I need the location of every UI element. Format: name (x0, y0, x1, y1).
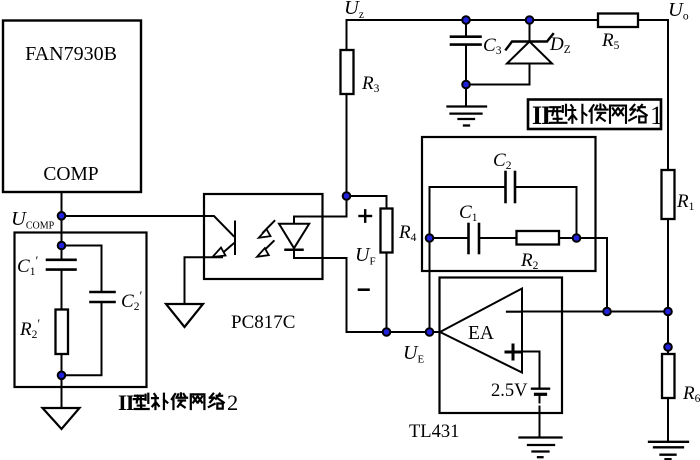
transistor Q1 emitter arrowhead (213, 248, 226, 258)
zener DZ triangle (507, 42, 552, 64)
wire node A up and right (C2 branch) (430, 187, 506, 238)
svg-text:C2′: C2′ (121, 288, 142, 313)
node comp2 top junction (58, 242, 66, 250)
node U_E wire (347, 331, 444, 333)
svg-text:1: 1 (650, 101, 663, 130)
svg-text:R2: R2 (520, 250, 539, 272)
capacitor C2' (91, 292, 115, 302)
svg-text:II: II (118, 390, 134, 415)
svg-text:Uz: Uz (344, 0, 364, 21)
zener DZ bar with tails (506, 34, 553, 50)
transistor Q1 collector (204, 216, 234, 236)
transistor Q1 base bar (234, 222, 236, 255)
ground (triangle) comp2 (43, 408, 80, 429)
svg-text:DZ: DZ (549, 34, 571, 56)
label network2 text (118, 390, 238, 415)
node rail C3 junction (462, 16, 470, 24)
resistor R4 (381, 209, 393, 253)
ground (bars) battery (520, 438, 562, 458)
resistor R2' (56, 310, 69, 355)
resistor R6 (662, 354, 675, 398)
op-amp EA triangle (440, 289, 522, 373)
LED D1 anode lead (293, 217, 295, 259)
wire R2' down to ground (61, 354, 63, 408)
svg-text:C1: C1 (459, 202, 478, 224)
wire R1 down (667, 219, 669, 354)
ground (bars) C3 (448, 107, 487, 126)
wire node B to minus input line (577, 238, 608, 312)
wire C1' to R2' (61, 270, 63, 310)
node LED+ junction (343, 192, 351, 200)
label plus (U_F) (360, 210, 372, 221)
svg-text:C2: C2 (493, 150, 512, 172)
svg-text:UE: UE (403, 342, 424, 366)
wire R4 to U_E line (386, 253, 388, 333)
wire emitter to pin (204, 256, 222, 258)
op-amp plus input sign (506, 345, 520, 359)
node A junction (426, 234, 434, 242)
wire rail to C3 (465, 20, 467, 37)
label box network1 (528, 100, 661, 130)
TL431 box (440, 278, 563, 414)
LED D1 triangle (279, 224, 309, 248)
wire node to R4 (347, 196, 387, 209)
wire battery to ground (dashed then solid) (539, 397, 541, 438)
svg-text:R1: R1 (676, 191, 695, 213)
svg-text:R3: R3 (361, 73, 380, 95)
wire plus input to battery (522, 352, 540, 387)
resistor R5 (598, 14, 638, 28)
wire rail to zener (529, 20, 531, 42)
node rail zener junction (526, 16, 534, 24)
svg-text:PC817C: PC817C (231, 312, 295, 333)
wire LED cathode to U_E (294, 258, 347, 332)
wire C3 down (465, 45, 467, 107)
svg-text:2: 2 (227, 390, 238, 415)
wire C2' branch top (62, 246, 102, 293)
node B junction (573, 234, 581, 242)
svg-text:R6: R6 (682, 383, 700, 405)
transistor Q1 emitter (222, 244, 234, 254)
wire C2' branch bottom (62, 302, 102, 375)
light arrow 1 (259, 221, 275, 238)
node R6 top junction (664, 343, 672, 351)
wire U_z rail left (347, 19, 599, 21)
node divider junction (664, 308, 672, 316)
wire COMP pin down (61, 192, 63, 260)
wire node A right to C1 (430, 237, 469, 239)
node comp2 bottom junction (58, 372, 66, 380)
wire U_E to comp network 1 (429, 238, 431, 332)
svg-text:UF: UF (355, 244, 376, 268)
wire zener bottom to C3 node (466, 84, 530, 86)
node R4 bottom junction (383, 328, 391, 336)
wire R5 to corner (638, 20, 668, 170)
label network1 text (532, 101, 663, 130)
capacitor C3 (451, 37, 481, 45)
capacitor C1' (47, 260, 76, 270)
wire U_z corner to R3 (346, 20, 348, 50)
node C3 bottom junction (462, 81, 470, 89)
svg-text:R5: R5 (601, 30, 620, 52)
compensation network 1 box (422, 137, 596, 271)
wire C2 to node B (515, 187, 577, 238)
svg-text:C1′: C1′ (17, 253, 38, 278)
op-amp minus input dash (507, 311, 521, 313)
ground (bars) R6 (649, 442, 688, 459)
IC FAN7930B box (3, 21, 141, 193)
node U_COMP junction (58, 212, 66, 220)
LED D1 cathode bar (286, 249, 303, 252)
node minus line junction (603, 308, 611, 316)
ground (triangle) opto (166, 304, 203, 327)
svg-text:EA: EA (468, 323, 494, 344)
svg-text:2.5V: 2.5V (491, 381, 528, 401)
wire LED anode to node (294, 196, 347, 217)
wire R6 to ground (667, 398, 669, 442)
svg-text:UCOMP: UCOMP (11, 208, 55, 232)
capacitor C2 (506, 172, 516, 202)
node U_E junction (426, 328, 434, 336)
svg-text:R2′: R2′ (19, 316, 40, 341)
svg-text:C3: C3 (483, 35, 502, 57)
wire opto emitter pin to ground (185, 257, 205, 304)
compensation network 2 box (15, 233, 147, 388)
svg-text:II: II (532, 101, 551, 130)
svg-text:FAN7930B: FAN7930B (25, 43, 117, 65)
svg-text:Uo: Uo (668, 0, 689, 23)
optocoupler PC817C box (204, 194, 323, 279)
resistor R3 (341, 50, 354, 94)
battery 2.5V plates (532, 389, 549, 395)
svg-text:TL431: TL431 (409, 422, 459, 442)
label minus (U_F) (359, 288, 369, 291)
resistor R2 (517, 231, 560, 245)
wire U_COMP to optocoupler (62, 215, 205, 217)
wire minus input line (522, 311, 668, 313)
light arrow 2 (257, 241, 274, 257)
svg-text:COMP: COMP (43, 164, 98, 185)
wire R2 to node B (559, 237, 577, 239)
resistor R1 (662, 170, 675, 219)
capacitor C1 (469, 224, 480, 253)
svg-text:R4: R4 (398, 222, 417, 244)
wire zener anode down (529, 64, 531, 85)
wire R3 to LED node (346, 94, 348, 196)
wire C1 to R2 (479, 237, 517, 239)
